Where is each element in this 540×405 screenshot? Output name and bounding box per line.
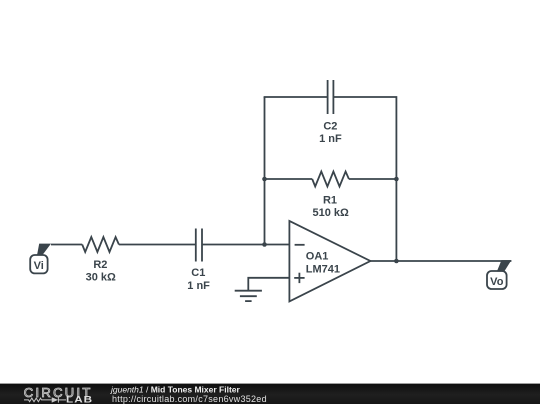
wire Vi to R2 [51,244,82,246]
svg-text:LAB: LAB [66,396,93,405]
wire feedback left vertical [264,97,266,245]
op-amp OA1 triangle [289,221,370,302]
op-amp plus symbol [294,273,304,283]
capacitor C1 [196,229,202,262]
op-amp minus symbol [295,244,305,246]
svg-text:R2: R2 [93,259,107,271]
wire R2 to C1 [119,244,196,246]
wire R1 right lead [349,178,397,180]
footer logo squiggle resistor diode [24,397,66,402]
svg-text:1 nF: 1 nF [187,280,210,292]
ground [235,291,262,301]
label R2 value [86,259,116,283]
node junction R1 left [262,177,267,182]
resistor R2 [82,237,119,252]
label R1 value [313,194,350,219]
label OA1 LM741 [306,251,340,276]
svg-text:R1: R1 [323,194,337,206]
wire output [370,260,511,262]
svg-text:1 nF: 1 nF [319,133,342,145]
wire non-inverting input to ground [248,278,289,291]
label C2 value [319,120,342,145]
node junction output [394,259,399,264]
node junction input [262,242,267,247]
svg-text:Vi: Vi [34,260,44,272]
wire C2 to right vertical down to output [333,97,396,261]
node junction R1 right [394,177,399,182]
resistor R1 [312,172,349,187]
terminal Vo [487,260,511,289]
svg-text:LM741: LM741 [306,264,340,276]
footer bar [0,384,540,404]
svg-text:510 kΩ: 510 kΩ [313,207,350,219]
svg-text:Vo: Vo [490,276,504,288]
capacitor C2 [328,80,334,114]
svg-text:30 kΩ: 30 kΩ [86,271,116,283]
svg-text:C1: C1 [191,267,205,279]
svg-text:C2: C2 [323,120,337,132]
terminal Vi [30,244,51,274]
wire C1 to op-amp inverting input [202,244,289,246]
wire top branch left to C2 [265,97,328,98]
wire R1 left lead [265,178,313,180]
svg-text:OA1: OA1 [306,251,329,263]
label C1 value [187,267,210,292]
svg-text:http://circuitlab.com/c7sen6vw: http://circuitlab.com/c7sen6vw352ed [112,394,267,404]
